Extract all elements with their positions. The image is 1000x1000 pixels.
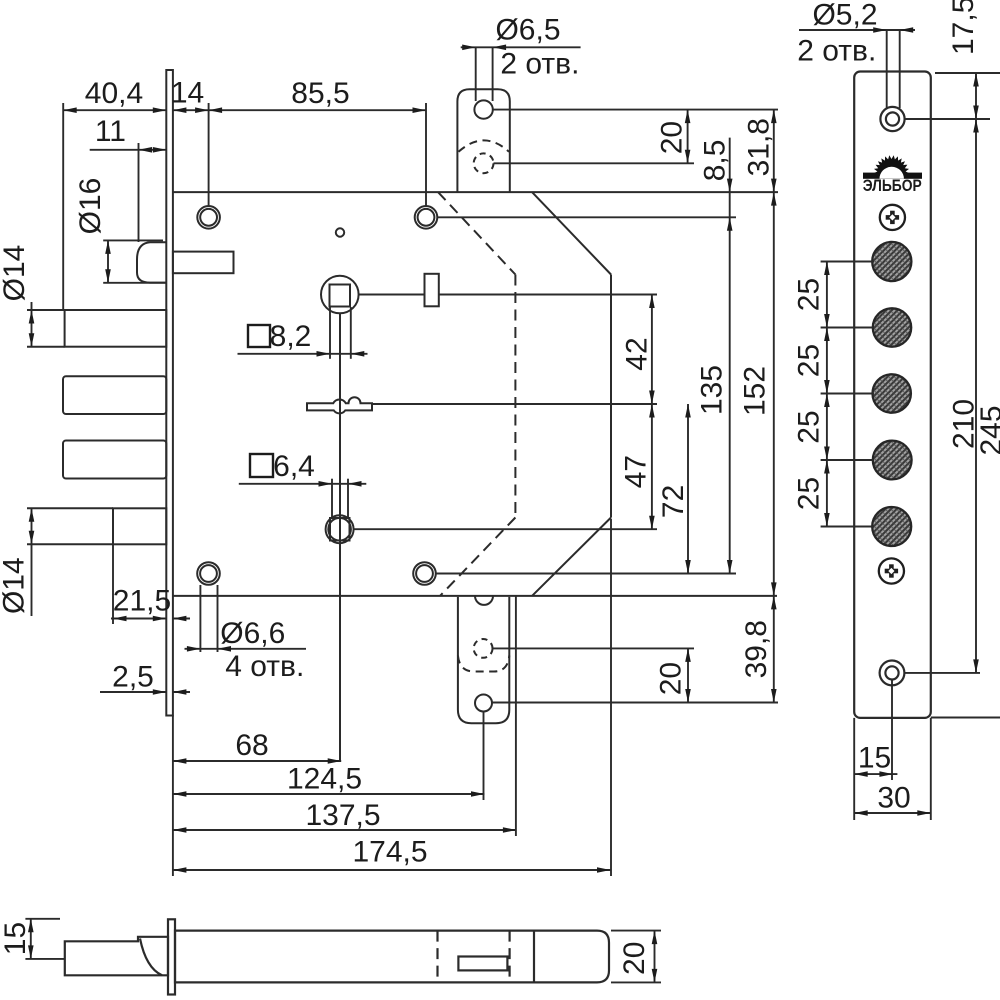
- hidden cover edge dashed: top chamfer: [438, 192, 515, 274]
- svg-text:4 отв.: 4 отв.: [225, 650, 304, 683]
- svg-text:8,5: 8,5: [698, 140, 731, 182]
- logo ELBOR: [863, 155, 922, 195]
- 20 extension lines: [611, 930, 661, 932]
- bottom-left fixing hole: [197, 562, 220, 585]
- svg-text:30: 30: [877, 781, 910, 814]
- dim line 15: [30, 919, 32, 959]
- strip bottom edge extension: [931, 717, 1000, 719]
- dim line 8,5 / 135: [729, 138, 731, 574]
- extension line hidden cover down: [515, 596, 517, 836]
- hidden cover edge dashed: bottom chamfer: [440, 518, 515, 596]
- dim line 20 bottom: [687, 648, 689, 702]
- deadbolt pin 3: [63, 441, 166, 479]
- svg-text:174,5: 174,5: [352, 835, 427, 868]
- svg-text:20: 20: [618, 942, 651, 975]
- 15 extension lines: [25, 918, 60, 920]
- bolt hole hatched 1: [872, 242, 911, 281]
- vertical arrows: #ar rotated = tip at anchor body below (points up); #al rotated = body above (points down): [105, 240, 111, 254]
- extension line latch left edge: [138, 143, 140, 242]
- dim line 174,5: [173, 869, 611, 871]
- svg-text:21,5: 21,5: [113, 584, 171, 617]
- extension line bottom tab hole down: [483, 712, 485, 801]
- extension lines Ø6,5: [475, 47, 477, 101]
- body right outline solid: bottom chamfer: [532, 518, 611, 596]
- dim line 17,5 / 210: [975, 73, 977, 673]
- keyhole profile: [307, 397, 372, 413]
- svg-text:Ø14: Ø14: [0, 245, 31, 302]
- side body: [175, 931, 609, 983]
- deadbolt pin 1: [65, 310, 167, 347]
- top tab hidden dome dashed: [459, 140, 510, 151]
- svg-text:2,5: 2,5: [112, 660, 154, 693]
- deadbolt pin 2: [63, 376, 166, 414]
- svg-text:2 отв.: 2 отв.: [797, 34, 876, 67]
- bolt hole hatched 5: [872, 507, 911, 546]
- Ø5,2 dim line: [799, 29, 915, 31]
- svg-text:31,8: 31,8: [743, 118, 776, 176]
- bolt hole hatched 3: [873, 374, 911, 412]
- svg-text:20: 20: [656, 121, 689, 154]
- main spindle square hub: [321, 276, 359, 314]
- spring latch front view: [137, 242, 166, 282]
- bottom-right fixing hole: [413, 562, 436, 585]
- svg-text:25: 25: [792, 477, 825, 510]
- dim line 11: [90, 149, 167, 151]
- strip outline: [854, 72, 931, 718]
- latch bevel curve: [140, 939, 162, 976]
- faceplate front-view strip: [166, 70, 173, 716]
- stop pin slot: [425, 274, 439, 307]
- svg-text:72: 72: [657, 485, 690, 518]
- dim line 40,4 / 14 / 85,5: [63, 109, 166, 111]
- svg-text:2 отв.: 2 отв.: [500, 48, 579, 81]
- dim line 2,5: [100, 691, 166, 693]
- extension strip bottom left/right: [853, 718, 855, 820]
- dim line Ø6,6: [185, 648, 307, 650]
- svg-text:Ø6,6: Ø6,6: [220, 617, 285, 650]
- lower square hub: [326, 515, 354, 543]
- top tab hidden hole dashed: [474, 153, 494, 173]
- Ø14 extension lines pin1: [27, 309, 65, 311]
- extension line top-left hole: [208, 103, 210, 206]
- top tab hole: [474, 100, 492, 118]
- screw head 2: [879, 558, 904, 583]
- dim line 137,5: [173, 829, 517, 831]
- body right outline solid: top chamfer: [532, 192, 611, 274]
- vertical centreline through hubs: [339, 313, 341, 761]
- night bolt: [113, 508, 166, 544]
- hidden edges dashed: [436, 931, 438, 983]
- leader from top-right fixing hole: [437, 216, 736, 218]
- svg-text:Ø16: Ø16: [74, 178, 107, 235]
- strip top edge extension: [935, 72, 1000, 74]
- bottom tab hidden dome dashed: [458, 656, 509, 672]
- Ø5,2 extension lines: [886, 30, 888, 108]
- dim line 72: [687, 404, 689, 574]
- svg-text:47: 47: [619, 455, 652, 488]
- bottom tab hole: [475, 695, 492, 712]
- internal edge: [533, 931, 535, 983]
- svg-text:14: 14: [171, 76, 204, 109]
- extension line faceplate down: [172, 716, 174, 877]
- lock body bottom edge + right extension line: [173, 595, 777, 597]
- svg-text:25: 25: [792, 278, 825, 311]
- dim line 42 / 47 chain: [651, 295, 653, 530]
- svg-text:42: 42: [621, 337, 654, 370]
- bolt hole hatched 4: [873, 441, 912, 480]
- svg-text:68: 68: [235, 729, 268, 762]
- svg-text:11: 11: [95, 115, 126, 148]
- strip dimension structure: [799, 30, 1000, 820]
- leader from bottom tab hidden hole: [493, 647, 695, 649]
- dim line Ø16: [107, 240, 109, 282]
- square symbol of 6,4: [250, 454, 273, 477]
- dim line 30 strip: [854, 812, 931, 814]
- svg-text:135: 135: [695, 365, 728, 415]
- leader from top tab hidden hole: [494, 162, 695, 164]
- svg-text:Ø5,2: Ø5,2: [812, 0, 877, 31]
- dim line 25 chain: [826, 262, 828, 527]
- leader from bottom-right fixing hole: [436, 573, 736, 575]
- extension lines Ø6,6: [199, 585, 201, 652]
- lock body top edge + right extension line: [173, 191, 778, 193]
- svg-text:17,5: 17,5: [947, 0, 980, 55]
- bottom tab notch: [475, 596, 493, 605]
- dim line 20 top: [687, 110, 689, 164]
- body right outline solid: vertical: [610, 275, 612, 518]
- dim line 21,5: [111, 618, 166, 620]
- dim line square 6,4: [239, 483, 366, 485]
- extension lines square 6,4: [331, 479, 333, 518]
- svg-text:137,5: 137,5: [305, 799, 380, 832]
- bottom strike tab: [458, 597, 509, 723]
- dim line 20: [654, 931, 656, 983]
- extension line bolt tips: [62, 103, 64, 310]
- svg-text:40,4: 40,4: [85, 77, 143, 110]
- svg-text:ЭЛЬБОР: ЭЛЬБОР: [863, 177, 922, 195]
- dim line 15 strip: [854, 773, 897, 775]
- svg-text:25: 25: [792, 344, 825, 377]
- svg-text:245: 245: [975, 405, 1000, 455]
- square symbol of 8,2: [248, 325, 270, 347]
- hidden cover edge dashed: vertical: [514, 275, 516, 518]
- arrowheads main view: [63, 45, 610, 873]
- svg-text:6,4: 6,4: [273, 450, 315, 483]
- leader from strip top hole: [905, 118, 990, 120]
- svg-text:85,5: 85,5: [291, 77, 349, 110]
- extension from bottom hole down: [891, 680, 893, 780]
- dim line 31,8 / 152 / 39,8: [773, 110, 775, 703]
- leader from keyhole: [373, 403, 657, 405]
- svg-text:39,8: 39,8: [740, 620, 773, 678]
- side slot: [458, 957, 507, 971]
- dim line Ø14 pin1: [31, 302, 33, 347]
- dim line Ø6,5: [461, 46, 581, 48]
- bottom tab hidden hole dashed: [474, 639, 493, 658]
- svg-text:20: 20: [655, 662, 688, 695]
- leader from top tab hole: [493, 109, 778, 111]
- top strike tab: [457, 89, 509, 192]
- extension line night bolt step: [112, 544, 114, 624]
- dim line 68: [173, 760, 341, 762]
- dim line square 8,2: [238, 353, 368, 355]
- leaders from bolt holes: [821, 261, 874, 263]
- svg-text:15: 15: [0, 922, 32, 955]
- strip bottom hole: [880, 661, 905, 686]
- extension lines square 8,2: [329, 307, 331, 359]
- small pin hole: [336, 228, 344, 236]
- svg-text:Ø14: Ø14: [0, 557, 30, 614]
- leader from spindle hub: [359, 294, 425, 296]
- top-left fixing hole: [197, 206, 220, 229]
- extension lines Ø16: [103, 239, 163, 241]
- svg-text:15: 15: [858, 741, 891, 774]
- extension line body right down: [610, 519, 612, 876]
- leader from lower hub: [354, 528, 657, 530]
- screw head 1: [880, 205, 905, 230]
- svg-text:124,5: 124,5: [287, 762, 362, 795]
- dim line 124,5: [173, 793, 485, 795]
- leader from bottom tab hole: [492, 702, 778, 704]
- top-right fixing hole: [415, 206, 438, 229]
- side faceplate bar: [168, 919, 175, 994]
- svg-text:152: 152: [738, 366, 771, 416]
- svg-text:25: 25: [792, 410, 825, 443]
- svg-text:Ø6,5: Ø6,5: [495, 14, 560, 47]
- leader from strip bottom hole: [905, 672, 980, 674]
- bolt hole hatched 2: [873, 308, 911, 346]
- side latch bolt: [65, 937, 168, 976]
- extension line top-right hole: [425, 103, 427, 206]
- strip top hole: [880, 107, 904, 131]
- dim line Ø14 night bolt: [31, 508, 33, 616]
- Ø14 extension lines night bolt: [27, 507, 113, 509]
- latch housing behind plate: [173, 252, 234, 274]
- svg-text:8,2: 8,2: [270, 320, 312, 353]
